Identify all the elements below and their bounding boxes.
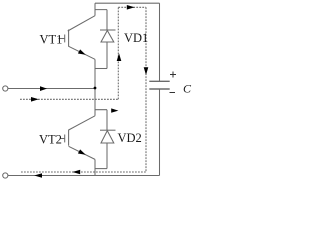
terminal lower input (3, 173, 8, 178)
svg-text:VD1: VD1 (124, 31, 148, 45)
wire mid input (8, 88, 95, 90)
diode VD2 (95, 130, 116, 168)
wire VT2 emitter vertical (94, 159, 96, 175)
wire top bus (95, 2, 160, 4)
junction dot mid node (94, 87, 97, 90)
wire VD2 top tap (95, 110, 107, 131)
wire dashed left loop vertical (117, 7, 119, 99)
svg-text:VD2: VD2 (118, 131, 142, 145)
arrow left on bottom dashed (72, 170, 80, 175)
arrow right on mid dashed (31, 97, 39, 102)
diode VD1 (95, 30, 116, 69)
svg-text:VT1: VT1 (40, 33, 63, 47)
svg-text:VT2: VT2 (39, 132, 62, 146)
wire VT1 collector vertical (94, 3, 96, 16)
wire VD1 top tap (95, 10, 107, 30)
arrow up on left dashed (117, 53, 122, 61)
dashed current path (20, 7, 146, 172)
capacitor C plates (149, 81, 169, 89)
arrow right floating at VD2 tap (111, 108, 118, 112)
arrow right on mid wire (40, 86, 47, 91)
transistor VT1 (59, 16, 96, 60)
arrow right on top dashed (127, 5, 135, 10)
wire emitter bus VT1 (94, 59, 96, 116)
terminal upper input (3, 86, 8, 91)
wire capacitor stem bottom (159, 89, 161, 176)
wire bottom bus (8, 175, 160, 177)
label plus (170, 72, 176, 78)
svg-text:C: C (183, 82, 192, 96)
arrow left on bottom wire (34, 173, 42, 178)
wire dashed bottom (21, 171, 146, 173)
wire dashed right vertical (145, 7, 147, 172)
wire dashed mid (20, 98, 118, 100)
arrow down on right dashed (144, 67, 149, 75)
transistor VT2 (61, 116, 96, 160)
wire dashed top (118, 6, 146, 8)
label minus (170, 92, 176, 94)
wire capacitor stem top (159, 3, 161, 81)
